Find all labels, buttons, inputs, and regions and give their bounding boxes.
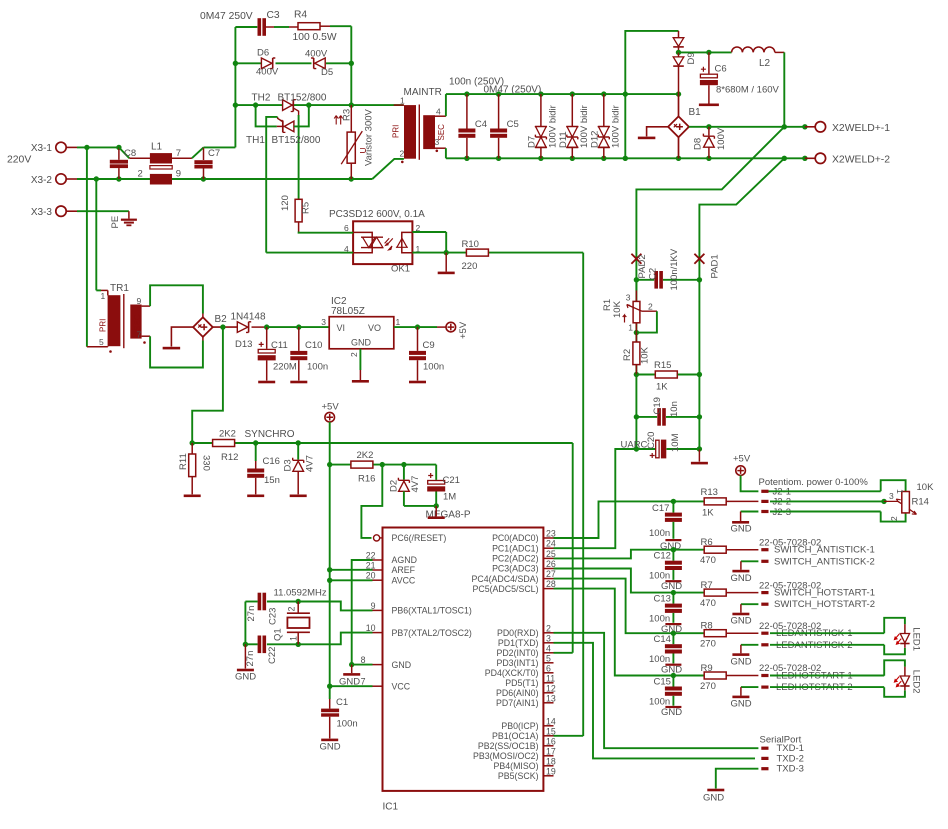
svg-text:220M: 220M — [273, 362, 297, 373]
svg-text:R4: R4 — [294, 10, 307, 21]
svg-text:BT152/800: BT152/800 — [272, 135, 321, 146]
svg-text:17: 17 — [546, 746, 556, 756]
svg-text:PC0(ADC0): PC0(ADC0) — [492, 533, 539, 543]
svg-text:PE: PE — [110, 216, 121, 229]
svg-text:78L05Z: 78L05Z — [331, 306, 365, 317]
svg-text:C14: C14 — [654, 634, 671, 645]
svg-text:19: 19 — [546, 766, 556, 776]
svg-text:X2WELD+-2: X2WELD+-2 — [832, 154, 890, 165]
svg-text:100V bidir: 100V bidir — [579, 105, 590, 148]
svg-text:D2: D2 — [389, 480, 400, 492]
svg-text:4V7: 4V7 — [410, 476, 421, 493]
svg-text:R5: R5 — [301, 202, 312, 214]
svg-text:GND: GND — [392, 660, 412, 670]
svg-text:PB4(MISO): PB4(MISO) — [494, 761, 539, 771]
svg-text:PD2(INT0): PD2(INT0) — [496, 648, 538, 658]
svg-text:B1: B1 — [689, 107, 702, 118]
svg-text:4: 4 — [546, 643, 551, 653]
svg-text:SWITCH_HOTSTART-1: SWITCH_HOTSTART-1 — [774, 588, 875, 599]
svg-text:0M47 250V: 0M47 250V — [200, 11, 253, 22]
svg-text:8*680M / 160V: 8*680M / 160V — [716, 85, 780, 96]
svg-text:PB0(ICP): PB0(ICP) — [501, 721, 538, 731]
svg-text:10K: 10K — [640, 346, 651, 364]
svg-text:TH2: TH2 — [252, 93, 271, 104]
svg-text:100n: 100n — [337, 719, 358, 730]
svg-text:2: 2 — [889, 516, 899, 521]
svg-text:SYNCHRO: SYNCHRO — [245, 429, 295, 440]
svg-text:27: 27 — [546, 569, 556, 579]
svg-text:GND: GND — [731, 616, 752, 627]
svg-text:120: 120 — [280, 195, 291, 211]
svg-text:10n: 10n — [669, 401, 680, 417]
svg-text:10K: 10K — [917, 482, 935, 493]
svg-text:11: 11 — [546, 673, 555, 683]
svg-text:C20: C20 — [646, 432, 657, 449]
svg-text:12: 12 — [546, 683, 556, 693]
svg-text:X2WELD+-1: X2WELD+-1 — [832, 123, 890, 134]
svg-text:R8: R8 — [701, 621, 713, 632]
svg-text:270: 270 — [700, 639, 716, 650]
svg-text:1: 1 — [400, 96, 405, 106]
svg-text:9: 9 — [137, 296, 142, 306]
svg-text:7: 7 — [361, 677, 366, 687]
svg-text:PB1(OC1A): PB1(OC1A) — [492, 731, 539, 741]
svg-text:PB2(SS/OC1B): PB2(SS/OC1B) — [478, 741, 539, 751]
svg-text:BT152/800: BT152/800 — [278, 93, 327, 104]
svg-text:2K2: 2K2 — [219, 429, 236, 440]
svg-text:100n: 100n — [307, 362, 328, 373]
svg-text:4V7: 4V7 — [305, 455, 316, 472]
svg-text:2: 2 — [648, 302, 653, 312]
svg-text:PD3(INT1): PD3(INT1) — [496, 658, 538, 668]
svg-text:L1: L1 — [151, 142, 163, 153]
svg-text:270: 270 — [700, 681, 716, 692]
svg-text:GND: GND — [661, 581, 682, 592]
svg-text:PD1(TXD): PD1(TXD) — [498, 638, 539, 648]
svg-text:PC3SD12 600V, 0.1A: PC3SD12 600V, 0.1A — [329, 209, 425, 220]
svg-text:3: 3 — [546, 633, 551, 643]
svg-text:27n: 27n — [245, 651, 256, 667]
svg-text:PD7(AIN1): PD7(AIN1) — [496, 698, 539, 708]
svg-text:1: 1 — [101, 291, 106, 301]
svg-text:SWITCH_ANTISTICK-2: SWITCH_ANTISTICK-2 — [774, 556, 875, 567]
svg-text:L2: L2 — [759, 58, 771, 69]
svg-text:GND: GND — [731, 573, 752, 584]
svg-text:PC3(ADC3): PC3(ADC3) — [492, 564, 539, 574]
svg-text:AREF: AREF — [392, 565, 416, 575]
svg-text:GND: GND — [703, 793, 724, 804]
svg-text:C16: C16 — [263, 456, 280, 467]
svg-text:C15: C15 — [654, 677, 671, 688]
svg-text:100n: 100n — [649, 613, 670, 624]
svg-text:VO: VO — [368, 323, 381, 333]
svg-text:16: 16 — [546, 736, 556, 746]
svg-text:1N4148: 1N4148 — [231, 312, 266, 323]
svg-text:LED2: LED2 — [911, 670, 922, 694]
svg-text:PRI: PRI — [99, 319, 108, 332]
svg-text:R15: R15 — [654, 360, 671, 371]
svg-text:VI: VI — [337, 323, 346, 333]
svg-text:C8: C8 — [124, 148, 136, 159]
svg-text:C21: C21 — [443, 475, 460, 486]
svg-text:TR1: TR1 — [110, 283, 129, 294]
svg-text:100n: 100n — [649, 654, 670, 665]
svg-text:1: 1 — [396, 317, 401, 327]
svg-text:1K: 1K — [656, 382, 668, 393]
svg-text:C3: C3 — [267, 10, 280, 21]
svg-text:LED1: LED1 — [911, 627, 922, 651]
svg-text:SWITCH_HOTSTART-2: SWITCH_HOTSTART-2 — [774, 599, 875, 610]
svg-text:C19: C19 — [652, 397, 663, 414]
svg-text:GND: GND — [661, 707, 682, 718]
svg-text:B2: B2 — [215, 314, 228, 325]
svg-text:U: U — [358, 147, 368, 153]
svg-text:Q1: Q1 — [273, 628, 284, 641]
svg-text:10M: 10M — [670, 433, 681, 452]
svg-text:26: 26 — [546, 559, 556, 569]
svg-text:2: 2 — [138, 169, 143, 180]
svg-text:PC6(/RESET): PC6(/RESET) — [392, 533, 447, 543]
svg-text:PC1(ADC1): PC1(ADC1) — [492, 543, 539, 553]
svg-text:R2: R2 — [622, 349, 633, 361]
svg-text:TH1: TH1 — [246, 135, 265, 146]
svg-text:1K: 1K — [702, 508, 714, 519]
svg-text:D9: D9 — [686, 52, 697, 64]
svg-text:5: 5 — [546, 653, 551, 663]
svg-text:PRI: PRI — [392, 125, 401, 138]
svg-text:GND: GND — [731, 656, 752, 667]
svg-text:2: 2 — [349, 352, 359, 357]
svg-text:C6: C6 — [715, 64, 727, 75]
svg-text:3: 3 — [321, 317, 326, 327]
svg-text:400V: 400V — [305, 49, 328, 60]
svg-text:PC5(ADC5/SCL): PC5(ADC5/SCL) — [473, 584, 539, 594]
svg-text:D8: D8 — [693, 138, 704, 150]
svg-text:100V bidir: 100V bidir — [547, 105, 558, 148]
svg-text:3: 3 — [626, 293, 631, 303]
svg-text:R11: R11 — [178, 453, 189, 470]
svg-text:D7: D7 — [526, 136, 537, 148]
svg-text:C22: C22 — [267, 647, 278, 664]
svg-text:100n/1KV: 100n/1KV — [669, 248, 680, 290]
svg-text:PB6(XTAL1/TOSC1): PB6(XTAL1/TOSC1) — [392, 606, 472, 616]
svg-text:220: 220 — [462, 261, 478, 272]
svg-text:SEC: SEC — [133, 314, 142, 331]
svg-text:5: 5 — [99, 337, 104, 347]
svg-text:X3-1: X3-1 — [31, 143, 53, 154]
svg-text:15n: 15n — [264, 475, 280, 486]
svg-text:400V: 400V — [256, 67, 279, 78]
svg-text:GND: GND — [351, 338, 372, 348]
svg-text:D12: D12 — [589, 131, 600, 148]
svg-text:100V: 100V — [716, 127, 727, 150]
svg-text:C7: C7 — [208, 148, 220, 159]
svg-text:R9: R9 — [701, 663, 713, 674]
svg-text:R7: R7 — [701, 580, 713, 591]
svg-text:1: 1 — [628, 323, 633, 333]
svg-text:24: 24 — [546, 539, 556, 549]
svg-text:10: 10 — [366, 623, 376, 633]
svg-text:13: 13 — [546, 693, 556, 703]
svg-text:28: 28 — [546, 579, 556, 589]
svg-text:GND: GND — [235, 672, 256, 683]
svg-text:D13: D13 — [235, 339, 252, 350]
svg-text:OK1: OK1 — [391, 264, 410, 275]
svg-text:PD5(T1): PD5(T1) — [505, 678, 538, 688]
svg-text:AVCC: AVCC — [392, 575, 416, 585]
svg-text:PB7(XTAL2/TOSC2): PB7(XTAL2/TOSC2) — [392, 628, 472, 638]
svg-text:SWITCH_ANTISTICK-1: SWITCH_ANTISTICK-1 — [774, 545, 875, 556]
svg-text:PC4(ADC4/SDA): PC4(ADC4/SDA) — [472, 574, 539, 584]
svg-text:1M: 1M — [443, 492, 456, 503]
svg-text:6: 6 — [344, 223, 349, 233]
svg-text:470: 470 — [700, 555, 716, 566]
svg-text:8: 8 — [361, 655, 366, 665]
svg-text:2: 2 — [400, 149, 405, 159]
svg-text:R13: R13 — [701, 487, 718, 498]
svg-text:C23: C23 — [268, 608, 279, 625]
svg-text:100n: 100n — [649, 571, 670, 582]
svg-text:R6: R6 — [701, 537, 713, 548]
svg-text:PB3(MOSI/OC2): PB3(MOSI/OC2) — [473, 751, 539, 761]
svg-text:PB5(SCK): PB5(SCK) — [498, 771, 539, 781]
svg-text:+5V: +5V — [458, 321, 469, 339]
svg-text:+5V: +5V — [733, 454, 751, 465]
svg-text:100n: 100n — [649, 528, 670, 539]
svg-text:2K2: 2K2 — [357, 450, 374, 461]
svg-text:4: 4 — [436, 107, 441, 117]
svg-text:6: 6 — [546, 663, 551, 673]
svg-text:GND: GND — [731, 524, 752, 535]
svg-text:22: 22 — [366, 551, 376, 561]
svg-text:D11: D11 — [558, 131, 569, 148]
svg-text:1: 1 — [895, 489, 905, 494]
svg-text:2: 2 — [546, 623, 551, 633]
svg-text:100 0.5W: 100 0.5W — [293, 32, 337, 43]
svg-text:27n: 27n — [246, 606, 257, 622]
svg-text:C13: C13 — [654, 594, 671, 605]
svg-text:R14: R14 — [912, 497, 929, 508]
svg-text:MAINTR: MAINTR — [404, 87, 442, 98]
svg-text:D6: D6 — [257, 48, 269, 59]
svg-text:IC1: IC1 — [383, 802, 399, 813]
svg-text:23: 23 — [546, 529, 556, 539]
svg-text:PD6(AIN0): PD6(AIN0) — [496, 688, 539, 698]
svg-text:TXD-3: TXD-3 — [777, 764, 804, 775]
svg-text:9: 9 — [371, 601, 376, 611]
svg-text:100n: 100n — [649, 696, 670, 707]
svg-text:R16: R16 — [358, 474, 375, 485]
svg-text:C11: C11 — [271, 340, 288, 351]
svg-text:PC2(ADC2): PC2(ADC2) — [492, 554, 539, 564]
svg-text:220V: 220V — [7, 155, 31, 166]
svg-text:Potentiom. power 0-100%: Potentiom. power 0-100% — [759, 477, 869, 488]
svg-text:10K: 10K — [612, 300, 623, 318]
svg-text:C1: C1 — [336, 697, 348, 708]
svg-text:100V bidir: 100V bidir — [610, 105, 621, 148]
svg-text:R3: R3 — [342, 109, 353, 121]
svg-text:100n: 100n — [423, 362, 444, 373]
svg-text:18: 18 — [546, 756, 556, 766]
svg-text:7: 7 — [176, 148, 181, 159]
svg-text:C2: C2 — [648, 268, 659, 280]
svg-text:330: 330 — [201, 455, 212, 471]
svg-text:11.0592MHz: 11.0592MHz — [274, 588, 327, 599]
svg-text:PD4(XCK/T0): PD4(XCK/T0) — [485, 668, 539, 678]
svg-text:VCC: VCC — [392, 681, 411, 691]
svg-text:+5V: +5V — [322, 402, 340, 413]
svg-text:15: 15 — [546, 726, 556, 736]
svg-text:2: 2 — [287, 607, 297, 612]
svg-text:25: 25 — [546, 549, 556, 559]
svg-text:R10: R10 — [462, 239, 479, 250]
svg-text:C12: C12 — [654, 551, 671, 562]
svg-text:1: 1 — [289, 636, 299, 641]
svg-text:PD0(RXD): PD0(RXD) — [497, 628, 539, 638]
svg-text:R12: R12 — [221, 452, 238, 463]
svg-text:C4: C4 — [475, 119, 487, 130]
svg-text:Varistor 300V: Varistor 300V — [364, 108, 375, 166]
svg-text:SEC: SEC — [437, 124, 446, 141]
svg-text:D5: D5 — [321, 67, 333, 78]
svg-text:C10: C10 — [305, 340, 322, 351]
svg-text:470: 470 — [700, 598, 716, 609]
svg-text:AGND: AGND — [392, 555, 417, 565]
svg-text:PAD1: PAD1 — [710, 254, 721, 278]
svg-text:0M47 (250V): 0M47 (250V) — [484, 85, 542, 96]
svg-text:C9: C9 — [423, 340, 435, 351]
svg-text:C17: C17 — [652, 503, 669, 514]
svg-text:X3-2: X3-2 — [31, 175, 53, 186]
svg-text:C5: C5 — [507, 119, 519, 130]
svg-text:14: 14 — [546, 716, 556, 726]
svg-text:D3: D3 — [283, 459, 294, 471]
svg-text:GND: GND — [320, 742, 341, 753]
svg-text:GND: GND — [731, 699, 752, 710]
svg-text:3: 3 — [889, 491, 894, 501]
svg-text:20: 20 — [366, 571, 376, 581]
svg-text:X3-3: X3-3 — [31, 207, 53, 218]
svg-text:9: 9 — [176, 169, 181, 180]
